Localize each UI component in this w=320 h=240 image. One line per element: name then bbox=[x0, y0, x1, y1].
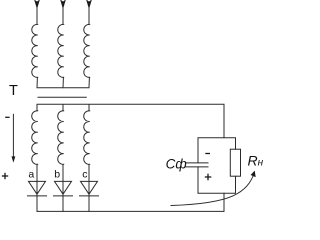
svg-text:T: T bbox=[9, 83, 18, 99]
svg-text:Сф: Сф bbox=[166, 157, 187, 172]
svg-text:b: b bbox=[54, 168, 60, 180]
svg-text:Rн: Rн bbox=[248, 153, 264, 169]
svg-text:a: a bbox=[28, 168, 34, 180]
svg-text:c: c bbox=[82, 168, 87, 180]
